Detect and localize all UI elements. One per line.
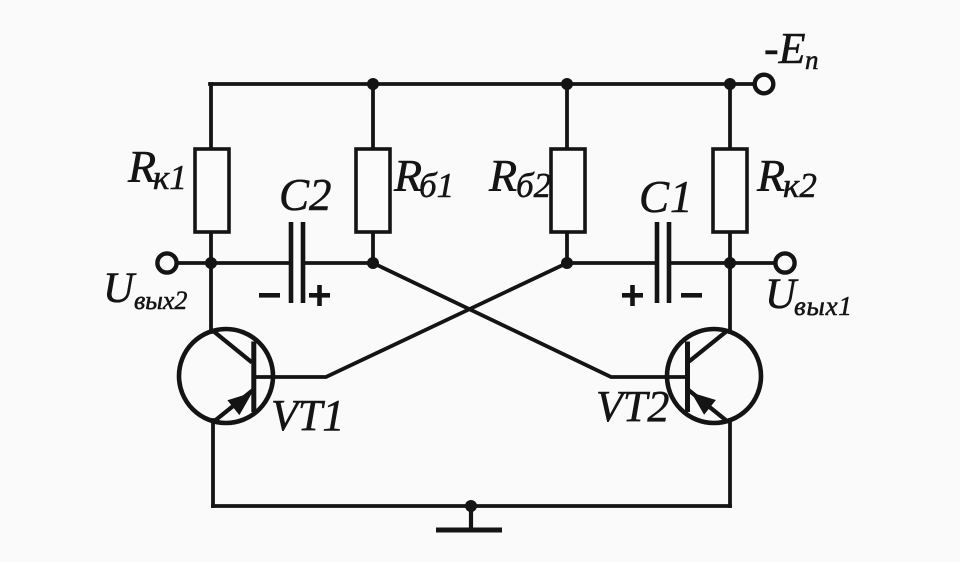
svg-text:R: R [756,150,785,201]
svg-text:C1: C1 [639,172,694,222]
wire Rb1 bottom lead [371,232,375,263]
capacitor C2 plus sign [309,285,330,306]
svg-text:б1: б1 [419,166,454,205]
capacitor C2 plates [291,222,303,303]
wire VT1 collector lead [209,263,213,332]
node junction B1 [367,257,379,269]
capacitor C1 minus sign [681,293,702,298]
wire top supply rail [210,82,752,86]
svg-text:R: R [393,150,422,201]
label -Ep [764,24,819,75]
wire cross-coupling B1 to VT2 base [373,263,687,377]
label Rb1 [393,150,454,205]
svg-text:б2: б2 [516,166,551,205]
wire VT1 emitter lead [211,420,215,506]
resistor Rk1 [195,149,229,232]
node junction top Rk2 [724,78,736,90]
node junction ground [465,500,477,512]
capacitor C2 minus sign [259,293,280,298]
node junction output1 / Rk2 [724,257,736,269]
label Rb2 [488,150,551,205]
svg-text:п: п [805,45,819,75]
wire cross-coupling B2 to VT1 base [254,263,567,377]
svg-text:вых1: вых1 [794,291,853,321]
transistor VT2 [667,329,761,423]
transistor VT1 [179,329,273,423]
svg-text:вых2: вых2 [134,286,187,315]
wire VT2 emitter lead [728,420,732,506]
wire Rb2 top lead [565,84,569,149]
terminal output Uvyh2 [157,253,176,272]
svg-text:U: U [103,265,137,312]
label Rk2 [756,150,817,205]
svg-text:R: R [488,150,517,201]
wire Rb1 top lead [371,84,375,149]
label Uvyh1 [765,271,853,321]
capacitor C1 plus sign [622,285,643,306]
label Uvyh2 [103,265,187,315]
wire C2 to node B1 [305,261,373,265]
svg-text:-E: -E [764,24,806,73]
wire Rk2 bottom lead [728,232,732,263]
wire output 1 rail [730,261,774,265]
resistor Rk2 [713,149,747,232]
wire ground rail [213,504,730,508]
svg-text:VT1: VT1 [271,391,344,440]
node junction top Rb1 [367,78,379,90]
label Rk1 [127,141,187,197]
wire output 2 rail [178,261,290,265]
node junction top Rb2 [561,78,573,90]
wire C1 to node K2 [671,261,730,265]
capacitor C1 plates [657,222,669,303]
svg-text:R: R [127,141,156,192]
wire Rk1 bottom lead [209,232,213,263]
svg-text:к2: к2 [783,166,817,205]
resistor Rb1 [356,149,390,232]
svg-text:C2: C2 [279,170,332,220]
svg-text:к1: к1 [153,158,187,197]
wire node B2 to C1 [567,261,655,265]
node junction B2 [561,257,573,269]
resistor Rb2 [551,149,585,232]
wire Rk1 top lead [209,84,213,149]
wire VT2 collector lead [728,263,732,332]
svg-text:VT2: VT2 [596,382,669,431]
ground symbol [436,506,502,530]
node junction output2 / Rk1 [205,257,217,269]
wire Rb2 bottom lead [565,232,569,263]
wire Rk2 top lead [728,84,732,149]
terminal output Uvyh1 [775,253,794,272]
terminal -Ep [755,75,774,94]
